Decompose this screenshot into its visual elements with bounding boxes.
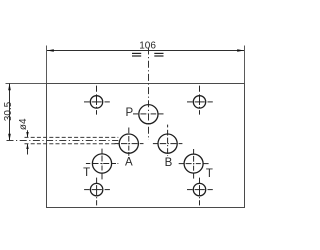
svg-text:T: T [206,168,213,180]
svg-text:30.5: 30.5 [3,101,14,121]
svg-text:P: P [125,107,133,119]
svg-text:T: T [83,167,90,179]
svg-text:ø4: ø4 [18,118,29,130]
svg-text:B: B [165,157,173,169]
svg-text:A: A [125,157,133,169]
svg-text:106: 106 [139,40,156,51]
